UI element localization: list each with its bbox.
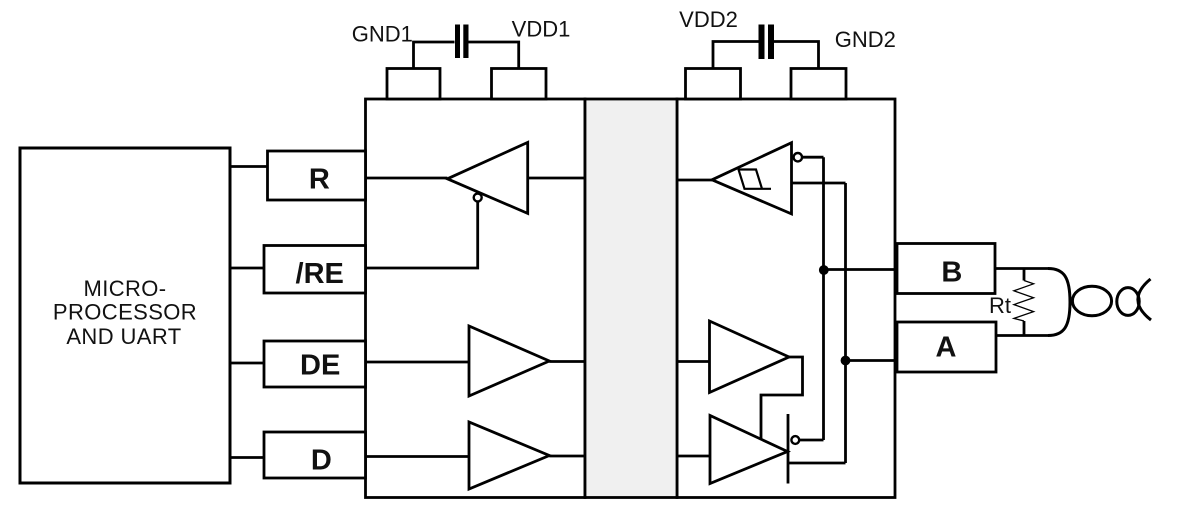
wire DE driver output to barrier <box>549 360 585 363</box>
svg-text:Rt: Rt <box>989 293 1011 318</box>
svg-text:DE: DE <box>300 350 340 382</box>
pin R box <box>268 151 366 200</box>
capacitor C1 <box>455 25 469 59</box>
pin D box <box>264 432 366 478</box>
wire barrier to receiver2 output <box>677 179 712 182</box>
pin box GND1 <box>387 69 440 100</box>
svg-text:D: D <box>311 444 332 476</box>
pin box VDD1 <box>492 69 547 100</box>
pin box VDD2 <box>686 69 741 100</box>
wire barrier to driver2 input <box>677 360 710 363</box>
svg-text:VDD2: VDD2 <box>679 7 738 32</box>
wire MCU to R pin <box>230 165 268 168</box>
pin /RE box <box>264 246 366 294</box>
isolation barrier <box>585 99 677 498</box>
svg-text:MICRO-: MICRO- <box>83 276 166 301</box>
svg-text:AND UART: AND UART <box>66 324 181 349</box>
wire node to A box <box>846 359 898 362</box>
wire R output (receiver to R pin) <box>366 177 448 180</box>
svg-text:B: B <box>941 257 962 289</box>
pin B box <box>897 244 995 294</box>
bubble driver3 inverting output <box>791 436 799 444</box>
IC left section box <box>366 99 586 498</box>
twisted pair end arc <box>1138 279 1151 320</box>
wire capacitor C2 to GND2 <box>774 42 819 69</box>
wire A box to cable <box>996 334 1048 337</box>
wire barrier to driver3 input <box>677 455 710 458</box>
svg-text:GND1: GND1 <box>352 22 413 47</box>
wire driver3 bubble to net L1 <box>799 439 824 442</box>
svg-text:GND2: GND2 <box>835 27 896 52</box>
driver buffer DE (points right) <box>469 326 549 396</box>
receiver2 with hysteresis (points left) <box>712 143 792 214</box>
net L2 vertical (A net) <box>844 183 847 463</box>
svg-text:R: R <box>309 164 330 196</box>
receiver buffer left (points left) <box>447 142 527 213</box>
IC right section box <box>677 99 895 498</box>
wire MCU to D pin <box>230 456 264 459</box>
driver buffer D (points right) <box>469 422 549 489</box>
enable bubble on receiver <box>474 194 482 202</box>
driver3 output bar <box>787 414 790 484</box>
hysteresis symbol <box>739 170 772 189</box>
svg-text:PROCESSOR: PROCESSOR <box>53 300 197 325</box>
wire GND1 to capacitor C1 <box>414 42 455 69</box>
wire driver3 output to net L2 <box>788 462 846 465</box>
wire D to driver buffer <box>366 455 470 458</box>
wire driver2 output to driver3 enable <box>761 357 803 440</box>
wire receiver input to barrier <box>528 177 585 180</box>
svg-text:VDD1: VDD1 <box>512 17 571 42</box>
svg-text:/RE: /RE <box>296 258 344 290</box>
wire node to B box <box>824 268 898 271</box>
wire receiver2 input <box>792 182 846 185</box>
cable end arc <box>1048 269 1070 336</box>
capacitor C2 <box>759 25 775 60</box>
twisted pair loop 1 <box>1072 286 1111 315</box>
microprocessor box U1 <box>20 148 230 483</box>
net L1 vertical (B net) <box>822 157 825 440</box>
junction node B <box>819 265 829 275</box>
bubble receiver2 enable <box>794 153 802 161</box>
driver buffer 3 (points right) <box>710 416 788 484</box>
wire MCU to DE pin <box>230 362 264 365</box>
svg-text:A: A <box>936 332 957 364</box>
pin A box <box>897 322 996 372</box>
wire D driver output to barrier <box>549 455 585 458</box>
resistor Rt <box>1014 269 1034 336</box>
wire DE to driver buffer <box>366 361 470 364</box>
wire MCU to /RE pin <box>230 267 264 270</box>
wire /RE to enable bubble <box>366 202 478 269</box>
pin box GND2 <box>791 69 846 100</box>
wire VDD2 to capacitor C2 <box>713 42 759 69</box>
twisted pair loop 2 <box>1117 288 1139 316</box>
junction node A <box>841 356 851 366</box>
wire bubble to net L1 <box>802 156 824 159</box>
wire B box to cable <box>995 267 1048 270</box>
wire capacitor C1 to VDD1 <box>468 42 519 69</box>
pin DE box <box>264 341 366 387</box>
driver buffer 2 (points right) <box>710 321 790 393</box>
